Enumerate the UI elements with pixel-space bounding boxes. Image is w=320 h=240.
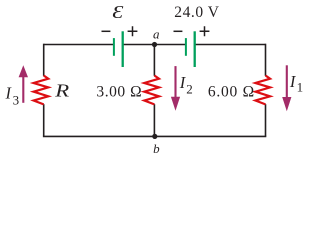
current arrow I2 (down) — [171, 66, 180, 111]
svg-text:2: 2 — [186, 82, 193, 97]
svg-text:a: a — [153, 26, 160, 41]
resistor 3.00 ohm — [144, 76, 159, 105]
wire right upper stub — [265, 44, 267, 76]
wire top-right segment — [195, 44, 266, 46]
plus sign battery 24.0V — [200, 26, 210, 36]
minus sign battery 24.0V — [174, 30, 183, 32]
wire top-left segment — [44, 44, 114, 46]
wire middle upper stub — [153, 45, 155, 76]
wire right lower stub — [265, 104, 267, 136]
svg-text:b: b — [153, 141, 160, 156]
battery 24.0V: short negative plate — [185, 38, 187, 56]
svg-text:Ɛ: Ɛ — [112, 3, 123, 22]
node b dot — [152, 134, 157, 139]
battery EMF: long positive plate — [122, 31, 124, 67]
wire left lower stub — [43, 104, 45, 136]
wire left upper stub — [43, 44, 45, 76]
resistor R — [34, 76, 49, 105]
svg-text:24.0 V: 24.0 V — [174, 4, 219, 21]
resistor 6.00 ohm — [255, 76, 270, 105]
current arrow I1 (down) — [282, 65, 291, 111]
svg-text:6.00 Ω: 6.00 Ω — [208, 84, 255, 101]
current arrow I3 (up) — [19, 65, 28, 103]
minus sign battery EMF — [102, 30, 111, 32]
svg-text:1: 1 — [297, 80, 304, 95]
wire bottom — [43, 135, 266, 137]
wire top-middle segment — [123, 44, 186, 46]
svg-text:I: I — [5, 83, 13, 102]
wire middle lower stub — [153, 104, 155, 136]
svg-text:3.00 Ω: 3.00 Ω — [96, 84, 142, 101]
node a dot — [152, 42, 157, 47]
svg-text:R: R — [54, 82, 70, 101]
svg-text:3: 3 — [13, 92, 20, 107]
plus sign battery EMF — [128, 26, 138, 36]
battery EMF: short negative plate — [113, 38, 115, 56]
battery 24.0V: long positive plate — [194, 31, 196, 67]
